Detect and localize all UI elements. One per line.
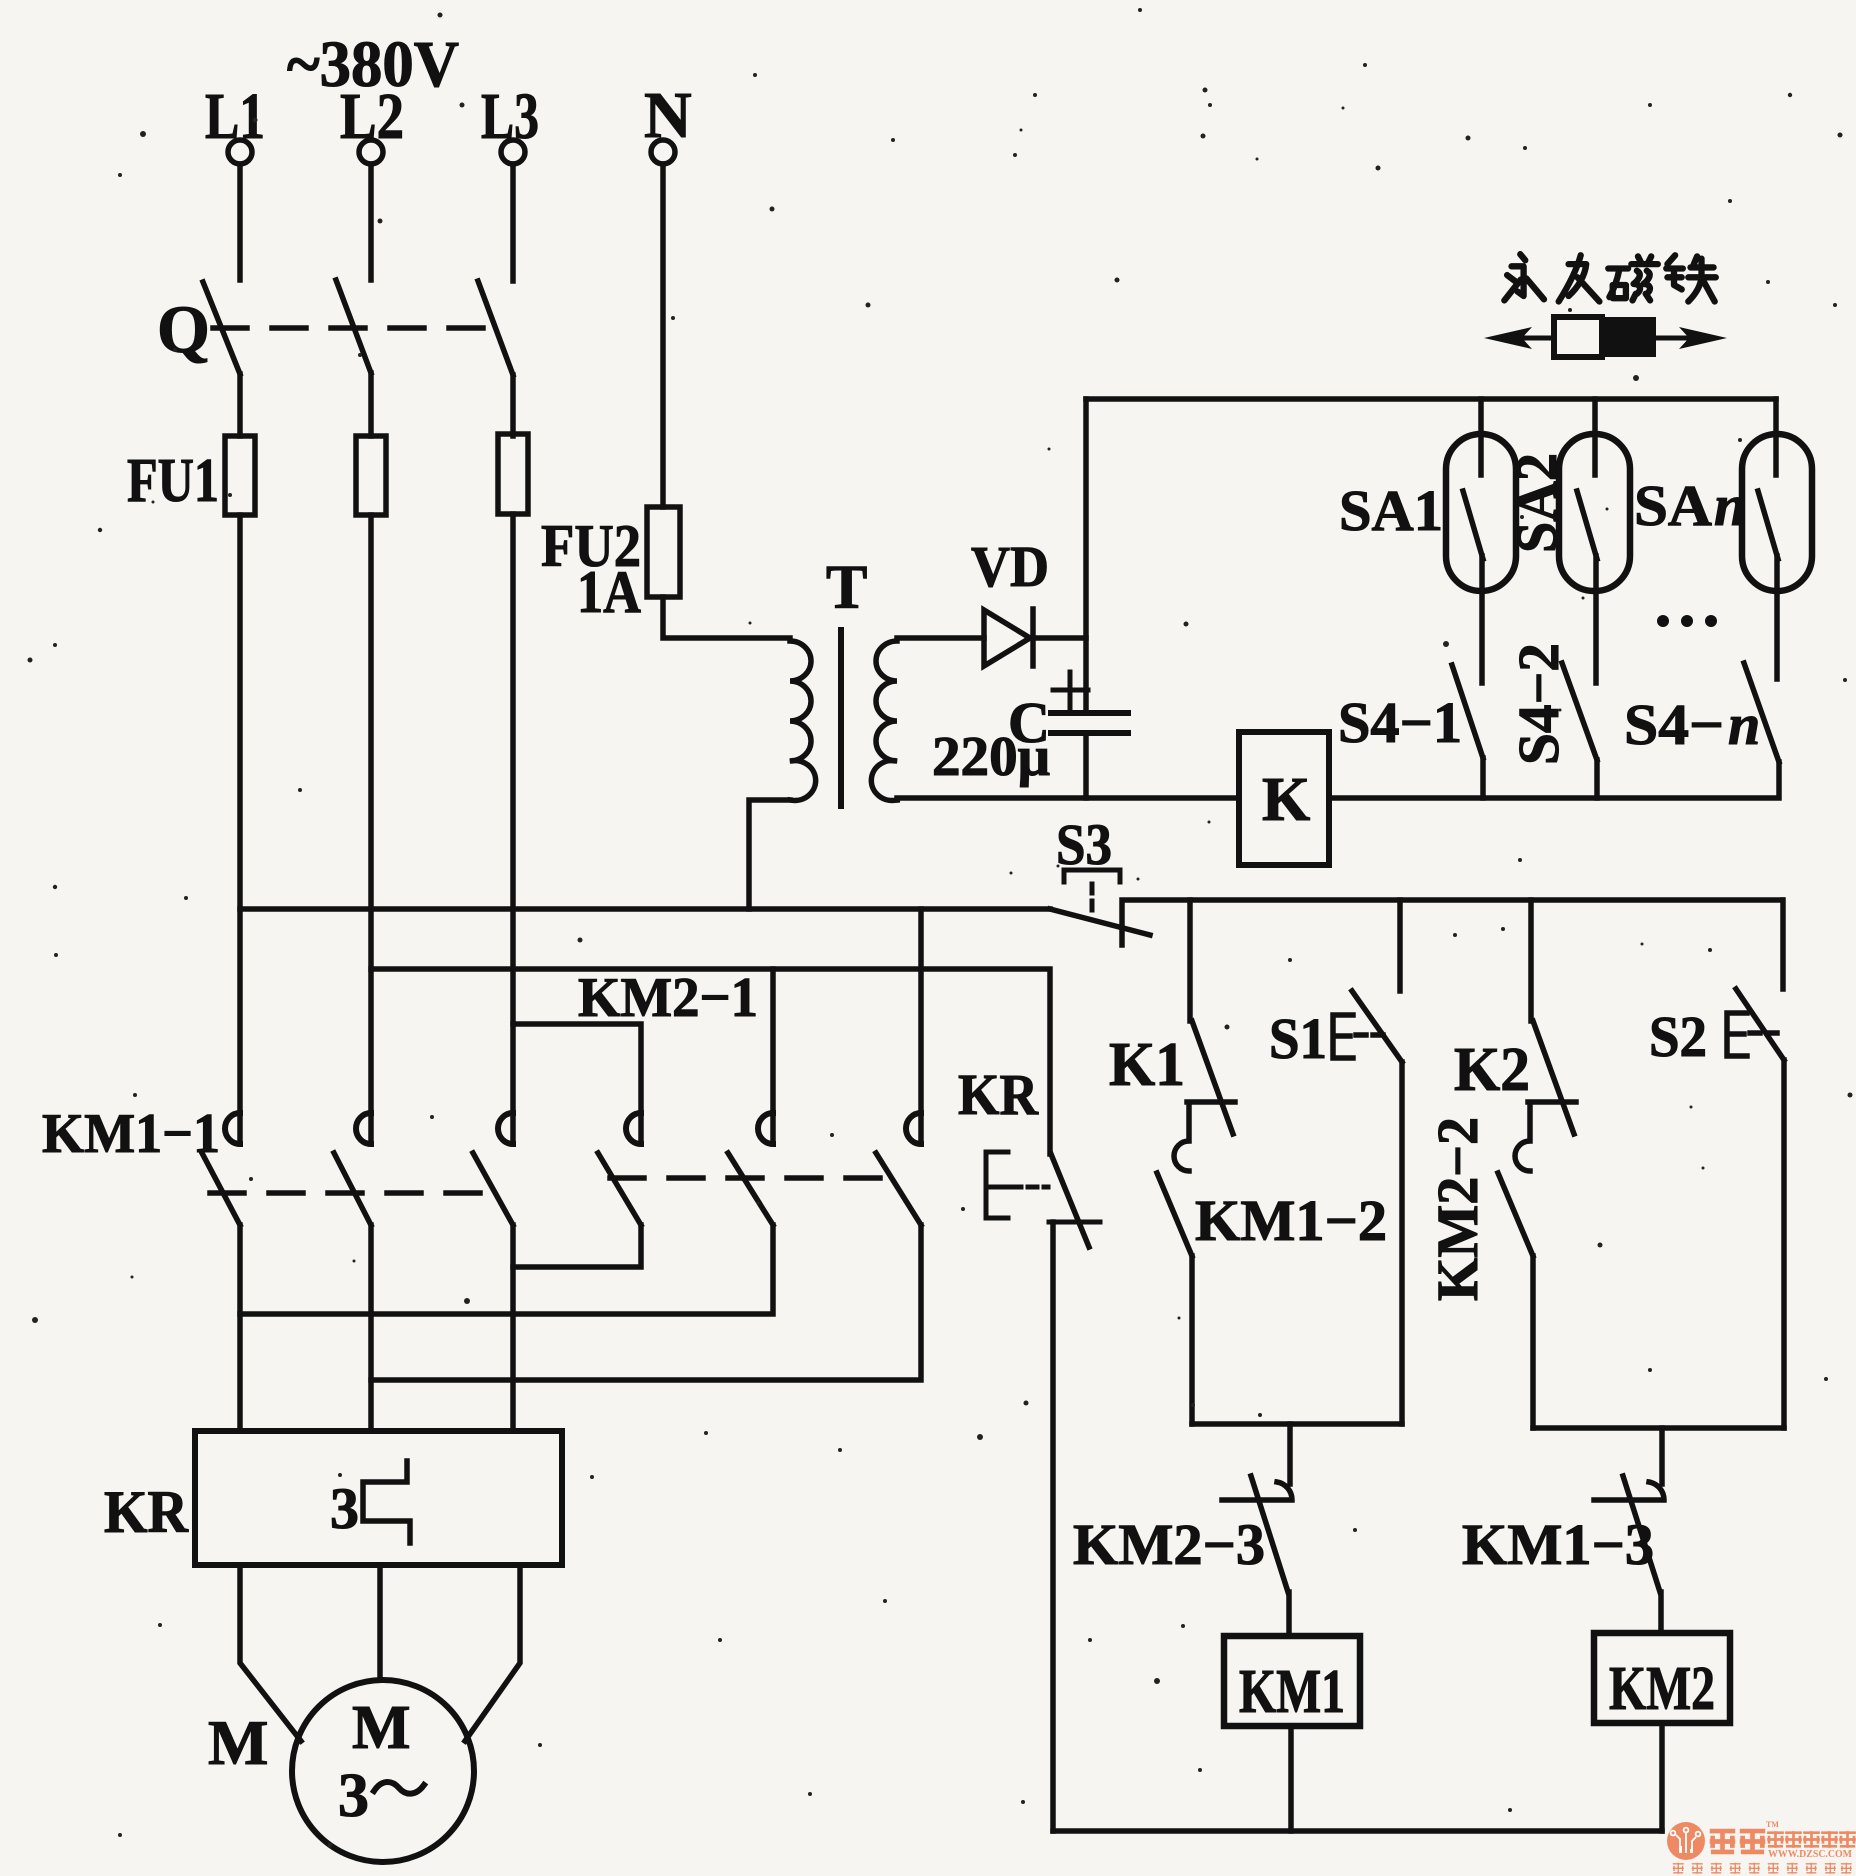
svg-text:M: M	[352, 1694, 411, 1762]
switch Q label	[157, 291, 210, 367]
label S2	[1649, 1004, 1707, 1069]
fuse FU1 b	[356, 436, 386, 515]
contact KM1-3	[1594, 1476, 1664, 1633]
wire stub to KM1-3	[1659, 1428, 1665, 1484]
capacitor C 220u	[1051, 672, 1128, 798]
label KR control	[958, 1062, 1039, 1127]
wire phase U drop	[237, 1225, 243, 1431]
wire branch join left	[1192, 1421, 1402, 1427]
label KM2-2 rotated	[1425, 1117, 1490, 1301]
svg-text:KM2−3: KM2−3	[1073, 1512, 1265, 1577]
reed switch SA2	[1559, 399, 1630, 683]
linkage KM2-1	[610, 1175, 888, 1181]
contact K1	[1174, 900, 1235, 1171]
wire K bus	[897, 798, 1239, 800]
wire primary bottom to line A	[749, 800, 790, 909]
svg-text:n: n	[1728, 692, 1760, 757]
svg-text:KM1−2: KM1−2	[1195, 1188, 1387, 1253]
coil KM2	[1594, 1633, 1730, 1723]
svg-text:S4−: S4−	[1624, 692, 1724, 757]
line B control feed	[371, 969, 1050, 1154]
wire branch join right	[1533, 1425, 1784, 1431]
svg-text:M: M	[208, 1707, 268, 1778]
line A control feed	[240, 906, 1050, 912]
svg-text:KM2−2: KM2−2	[1425, 1117, 1490, 1301]
svg-text:S1: S1	[1269, 1006, 1327, 1071]
wire contact 5 feed	[770, 969, 776, 1144]
wire phase W drop	[510, 1225, 516, 1431]
label 220u	[932, 726, 1050, 788]
wire contact6 to V	[371, 1225, 921, 1380]
contactor main blades	[202, 1153, 921, 1225]
label K2	[1454, 1036, 1530, 1104]
contact KR normally closed	[986, 1152, 1100, 1247]
wire left return vertical	[1050, 1222, 1056, 1831]
svg-text:3: 3	[330, 1476, 359, 1541]
contact K2	[1515, 900, 1576, 1171]
watermark logo	[1667, 1820, 1856, 1874]
svg-text:3: 3	[338, 1762, 369, 1830]
wire KM2-1 loop	[513, 1024, 641, 1144]
svg-text:KM1−3: KM1−3	[1462, 1512, 1654, 1577]
fuse FU1 a	[225, 436, 255, 515]
fuse FU2	[647, 507, 680, 597]
reed switch SAn	[1742, 399, 1812, 679]
label S1	[1269, 1006, 1327, 1071]
svg-text:KR: KR	[104, 1479, 189, 1545]
svg-text:VD: VD	[971, 534, 1049, 599]
label KM1-3	[1462, 1512, 1654, 1577]
pushbutton S1	[1333, 900, 1402, 1424]
contact KM1-2	[1157, 1173, 1192, 1424]
wire rectifier vertical	[1083, 399, 1089, 713]
svg-text:SA1: SA1	[1339, 478, 1443, 543]
svg-text:KM2: KM2	[1609, 1655, 1715, 1723]
svg-text:S2: S2	[1649, 1004, 1707, 1069]
label SA2 rotated	[1504, 453, 1569, 553]
wire L3 below fuse	[510, 514, 516, 1144]
label KR power	[104, 1479, 189, 1545]
wire contact5 to U	[240, 1225, 773, 1314]
contact KM2-2	[1498, 1173, 1533, 1428]
label M	[208, 1707, 268, 1778]
wire K bus right	[1329, 762, 1779, 798]
motor M	[292, 1680, 474, 1862]
contactor main contacts row hooks	[225, 1113, 921, 1144]
pushbutton S2	[1727, 900, 1784, 1428]
label FU2 1A	[541, 513, 641, 625]
ellipsis dots	[1657, 615, 1717, 627]
wire L1 drop	[237, 164, 243, 280]
wire phase V drop	[368, 1225, 374, 1431]
wire stub to KM2-3	[1287, 1424, 1293, 1484]
label KM2-1	[578, 967, 758, 1029]
wire KM2 to bottom bus	[1659, 1723, 1665, 1831]
label KM1-2	[1195, 1188, 1387, 1253]
svg-text:220μ: 220μ	[932, 726, 1050, 788]
svg-text:S3: S3	[1056, 812, 1112, 877]
label KM1-1	[42, 1103, 220, 1165]
svg-text:S4−2: S4−2	[1506, 643, 1571, 765]
diode VD	[984, 609, 1086, 666]
svg-text:FU1: FU1	[127, 447, 219, 515]
svg-text:SA2: SA2	[1504, 453, 1569, 553]
label K1	[1109, 1031, 1185, 1099]
magnet symbol	[1484, 317, 1727, 357]
svg-text:TM: TM	[1766, 1820, 1779, 1829]
fuse FU1 c	[498, 434, 528, 514]
terminal L3	[481, 80, 539, 164]
wire secondary top to diode	[897, 635, 984, 641]
svg-text:KM2−1: KM2−1	[578, 967, 758, 1029]
label KM2-3	[1073, 1512, 1265, 1577]
switch S4-n	[1744, 663, 1779, 762]
svg-text:K1: K1	[1109, 1031, 1185, 1099]
label C	[1008, 690, 1050, 755]
transformer T primary winding	[790, 641, 816, 801]
wire FU2 to transformer	[663, 597, 790, 638]
switch Q pole 3	[478, 281, 513, 375]
wire L3 to fuse	[510, 375, 516, 436]
terminal L2	[340, 80, 404, 164]
transformer T secondary winding	[871, 641, 897, 801]
switch S4-2	[1562, 663, 1597, 798]
wire N drop	[660, 164, 666, 507]
relay coil K	[1239, 732, 1329, 865]
switch Q linkage	[213, 325, 505, 331]
wires KR to motor	[240, 1565, 520, 1741]
switch Q pole 1	[203, 282, 240, 374]
wire L2 drop	[368, 164, 374, 280]
wire L1 to fuse	[237, 374, 243, 436]
bottom bus	[1053, 1828, 1662, 1834]
reed switch SA1	[1446, 399, 1516, 683]
switch S3	[1050, 870, 1150, 935]
svg-text:Q: Q	[157, 291, 210, 367]
top bus of reed network	[1086, 396, 1776, 402]
transformer T core	[838, 630, 844, 806]
label S4-2 rotated	[1506, 643, 1571, 765]
svg-text:1A: 1A	[577, 559, 641, 625]
terminal L1	[205, 80, 265, 164]
wire contact4 to W	[513, 1225, 641, 1267]
svg-text:n: n	[1714, 473, 1746, 538]
label S4-n	[1624, 692, 1760, 757]
label yong jiu ci tie (permanent magnet)	[1504, 254, 1715, 301]
switch Q pole 2	[336, 280, 371, 373]
label FU1	[127, 447, 219, 515]
svg-text:S4−1: S4−1	[1338, 690, 1462, 755]
coil KM1	[1224, 1636, 1360, 1726]
label ~380V	[287, 28, 459, 101]
terminal N	[644, 79, 692, 164]
transformer T label	[826, 554, 867, 622]
svg-text:KM1−1: KM1−1	[42, 1103, 220, 1165]
control bus 2	[1122, 900, 1782, 945]
wire L1 below fuse	[237, 515, 243, 1144]
svg-text:T: T	[826, 554, 867, 622]
svg-text:K: K	[1262, 766, 1310, 834]
label SA1	[1339, 478, 1443, 543]
wire KM1 to bottom bus	[1288, 1726, 1294, 1831]
label S4-1	[1338, 690, 1462, 755]
svg-text:KR: KR	[958, 1062, 1039, 1127]
label S3	[1056, 812, 1112, 877]
contact KM2-3	[1222, 1476, 1292, 1636]
thermal relay KR box	[195, 1431, 562, 1565]
label VD	[971, 534, 1049, 599]
wire L2 below fuse	[368, 515, 374, 1144]
svg-text:KM1: KM1	[1239, 1658, 1345, 1726]
wire L2 to fuse	[368, 373, 374, 436]
svg-text:WWW.DZSC.COM: WWW.DZSC.COM	[1768, 1849, 1853, 1860]
svg-text:SA: SA	[1634, 473, 1712, 538]
wire contact 6 feed	[918, 909, 924, 1144]
switch S4-1	[1452, 665, 1483, 798]
label SAn	[1634, 473, 1746, 538]
wire L3 drop	[510, 164, 516, 281]
linkage KM1-1	[210, 1190, 505, 1196]
svg-text:K2: K2	[1454, 1036, 1530, 1104]
